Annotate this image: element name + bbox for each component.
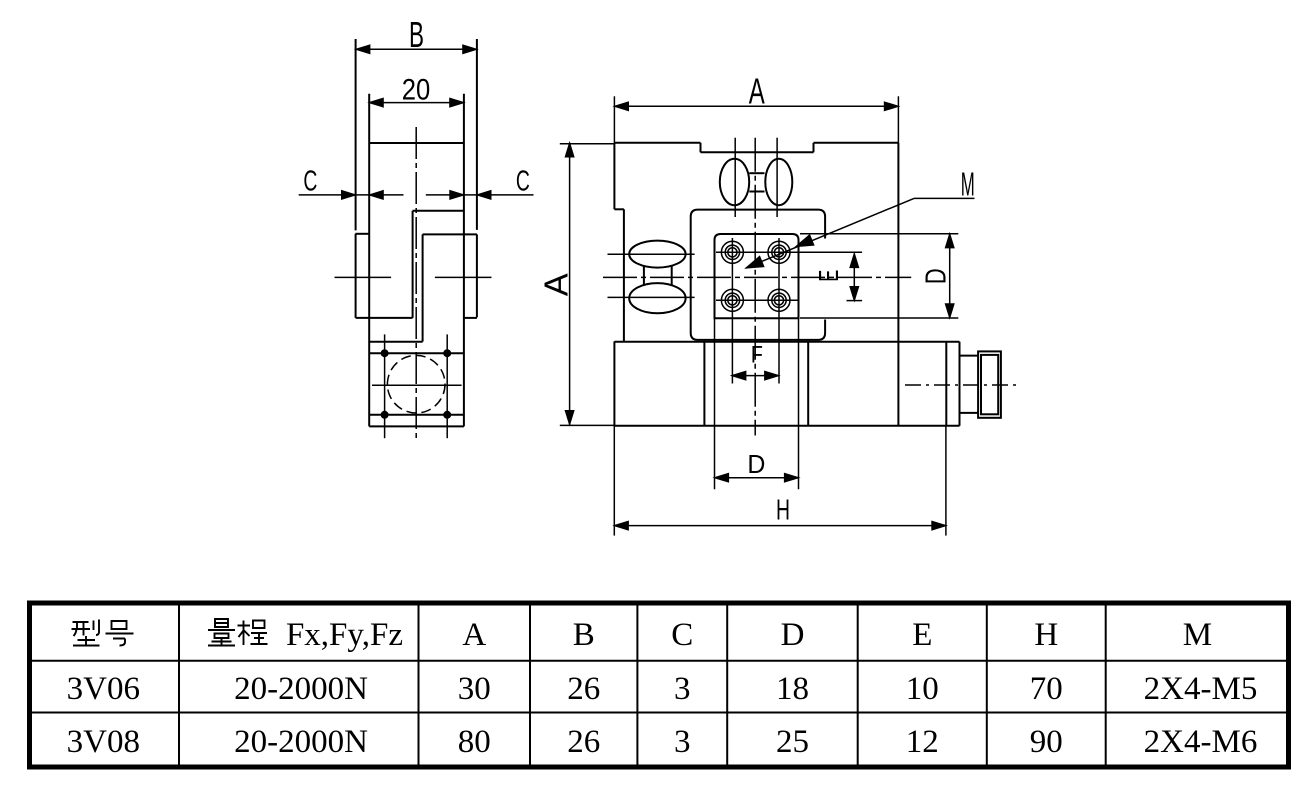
horizontal centerline right segment <box>435 276 492 278</box>
hole bottom-right outer circle <box>768 289 790 311</box>
top notch left wall <box>700 143 702 153</box>
dimension 20: dim line <box>369 102 464 104</box>
slot upper edge right part <box>413 210 464 212</box>
svg-text:20-2000N: 20-2000N <box>234 724 368 760</box>
central plate outline (C-shape open right) <box>691 210 825 340</box>
svg-text:25: 25 <box>776 724 809 760</box>
dimension H: dim line <box>614 525 946 527</box>
svg-text:B: B <box>573 617 595 653</box>
svg-text:90: 90 <box>1030 724 1063 760</box>
top bone right centerline <box>776 138 778 217</box>
section line C-C left segment <box>299 194 404 196</box>
svg-text:Fx,Fy,Fz: Fx,Fy,Fz <box>286 617 403 653</box>
slot right mouth lower edge <box>423 233 477 235</box>
top bone neck lower line <box>749 191 764 193</box>
hole top-left outer circle <box>721 241 743 263</box>
central vertical centerline (dash-dot) <box>754 138 756 436</box>
svg-text:3: 3 <box>674 671 691 707</box>
svg-text:18: 18 <box>776 671 809 707</box>
svg-text:3V08: 3V08 <box>67 724 140 760</box>
dimension E: top arrow <box>850 254 859 268</box>
top bone slot right lobe <box>765 159 792 205</box>
dimension A top: right arrow <box>884 102 898 111</box>
body left edge middle <box>623 209 625 341</box>
dimension F: dim line <box>732 375 779 377</box>
table column line 4 <box>636 603 638 767</box>
dimension A top: left extension line <box>613 96 615 143</box>
section line C-C right segment <box>426 194 534 196</box>
dimension D right: top arrow <box>945 234 954 248</box>
dimension H: left extension line <box>613 426 615 536</box>
outer left edge lower segment <box>355 234 357 318</box>
svg-text:D: D <box>781 617 805 653</box>
left bone slot bottom lobe <box>629 283 685 313</box>
middle slot right wall <box>422 234 424 341</box>
bolt circle (dashed) <box>387 355 445 413</box>
body left step upper <box>614 208 624 210</box>
hole top-right inner circle <box>774 248 783 257</box>
dimension D right: dim line <box>949 234 951 318</box>
section C arrow pointing left at outer right wall <box>477 191 491 200</box>
dimension H: right extension line <box>945 426 947 536</box>
svg-text:20-2000N: 20-2000N <box>234 671 368 707</box>
hole row bottom centerline <box>716 299 799 301</box>
inner left edge <box>368 94 370 427</box>
body right edge <box>897 143 899 426</box>
M leader arrow 1 <box>796 235 814 247</box>
svg-text:M: M <box>961 166 975 203</box>
table row line 1 <box>30 660 1290 662</box>
D extension line left <box>714 318 716 489</box>
hole column left centerline <box>731 238 733 384</box>
svg-text:D: D <box>921 268 953 284</box>
connector nut outer rect <box>978 351 1001 417</box>
header hanzi 量 <box>208 619 235 646</box>
svg-text:H: H <box>776 495 790 527</box>
body bottom edge <box>614 425 959 427</box>
dimension A left: top arrow <box>565 143 574 157</box>
inner mounting square <box>715 234 799 318</box>
svg-text:10: 10 <box>906 671 939 707</box>
table row line 2 <box>30 712 1290 714</box>
dimension B: right arrow <box>463 45 477 54</box>
main horizontal centerline (dash-dot) <box>603 276 911 278</box>
dimension D right: top extension line <box>800 233 958 235</box>
left bone slot top lobe <box>629 241 685 268</box>
connector block right face <box>959 342 961 426</box>
bolt dot top-right <box>444 350 451 357</box>
body top edge right part <box>814 142 899 144</box>
bolt centerline left column <box>384 334 386 438</box>
svg-text:C: C <box>671 617 693 653</box>
dimension B: left arrow <box>356 45 370 54</box>
left bone bottom centerline <box>608 296 695 298</box>
hole bottom-left inner circle <box>728 296 737 305</box>
header hanzi 型 <box>72 620 100 646</box>
vertical centerline (dash-dot) <box>415 127 417 438</box>
table column line 6 <box>857 603 859 767</box>
bolt dot top-left <box>381 350 388 357</box>
top bone slot left lobe <box>720 159 749 205</box>
dimension A top: dim line <box>614 105 898 107</box>
svg-text:20: 20 <box>402 74 431 107</box>
table column line 3 <box>529 603 531 767</box>
horizontal centerline left segment <box>335 276 392 278</box>
svg-text:30: 30 <box>458 671 491 707</box>
left bone neck left line <box>643 266 645 285</box>
M leader diagonal segment <box>746 198 914 268</box>
section C arrow pointing right at outer left wall <box>342 191 356 200</box>
svg-text:3: 3 <box>674 724 691 760</box>
bolt row top line <box>369 352 464 354</box>
dimension A top: right extension line <box>897 96 899 143</box>
connector nut inner rect <box>981 355 998 414</box>
middle slot left wall <box>412 211 414 318</box>
stem left edge <box>703 342 705 426</box>
top bone left centerline <box>734 138 736 217</box>
table column line 7 <box>986 603 988 767</box>
dimension F: right arrow <box>765 371 779 380</box>
dimension A left: bottom extension line <box>560 424 615 426</box>
inner right edge <box>463 94 465 427</box>
dimension F: left arrow <box>732 371 746 380</box>
table column line 1 <box>178 603 180 767</box>
top edge of inner tab <box>369 142 464 144</box>
hole row bottom centerline E extension <box>847 300 863 302</box>
bottom edge <box>369 425 464 427</box>
dimension D bottom: dim line <box>715 477 799 479</box>
M leader horizontal segment <box>914 197 975 199</box>
svg-text:H: H <box>1034 617 1058 653</box>
stem right edge <box>807 342 809 426</box>
top notch bottom edge <box>701 151 814 153</box>
dimension E: dim line <box>853 254 855 301</box>
M leader arrow 2 <box>746 256 764 268</box>
svg-text:3V06: 3V06 <box>67 671 140 707</box>
hole column right centerline <box>778 238 780 384</box>
svg-text:26: 26 <box>567 724 600 760</box>
dimension H: left arrow <box>614 521 628 530</box>
svg-text:A: A <box>462 617 486 653</box>
dimension D bottom: left arrow <box>715 473 729 482</box>
table outer border <box>30 603 1289 767</box>
dimension D right: bottom arrow <box>945 304 954 318</box>
connector stem bottom <box>960 412 979 414</box>
body left edge upper <box>613 143 615 210</box>
bolt dot bottom-left <box>381 411 388 418</box>
dimension B: dim line <box>356 48 477 50</box>
body top edge left part <box>614 142 700 144</box>
svg-text:2X4-M5: 2X4-M5 <box>1144 671 1258 707</box>
svg-text:E: E <box>813 270 844 282</box>
slot bottom edge <box>369 341 422 343</box>
svg-text:C: C <box>516 165 530 197</box>
outer right edge upper segment <box>476 39 478 230</box>
connector stem top <box>960 355 979 357</box>
slot left mouth lower edge <box>355 233 369 235</box>
dimension E: bottom arrow <box>850 287 859 301</box>
table column line 2 <box>418 603 420 767</box>
right shoulder line <box>464 317 477 319</box>
dimension A left: dim line <box>569 143 571 425</box>
svg-text:80: 80 <box>458 724 491 760</box>
svg-text:C: C <box>303 165 317 197</box>
svg-text:70: 70 <box>1030 671 1063 707</box>
dimension D right: bottom extension line <box>800 317 958 319</box>
left shoulder line <box>356 317 413 319</box>
svg-text:M: M <box>1183 617 1212 653</box>
D extension line right <box>798 318 800 489</box>
table column line 8 <box>1105 603 1107 767</box>
svg-text:12: 12 <box>906 724 939 760</box>
header hanzi 号 <box>106 621 134 646</box>
dimension A top: left arrow <box>614 102 628 111</box>
dimension H: right arrow <box>932 521 946 530</box>
section C arrow pointing left at inner left wall <box>369 191 383 200</box>
dimension D bottom: right arrow <box>785 473 799 482</box>
section C arrow pointing right at inner right wall <box>450 191 464 200</box>
body waist line <box>614 341 959 343</box>
connector centerline (dash-dot) <box>905 384 1021 386</box>
body left edge lower <box>613 341 615 425</box>
dimension A left: top extension line <box>560 143 615 145</box>
hole row top centerline <box>716 251 862 253</box>
svg-text:26: 26 <box>567 671 600 707</box>
svg-text:B: B <box>409 14 424 55</box>
outer left edge upper segment <box>355 39 357 230</box>
left bone neck right line <box>671 266 673 285</box>
top notch right wall <box>813 143 815 153</box>
dimension 20: left arrow <box>369 98 383 107</box>
hole top-right outer circle <box>768 241 790 263</box>
svg-text:E: E <box>912 617 932 653</box>
top bone neck upper line <box>749 172 764 174</box>
dimension A left: bottom arrow <box>565 411 574 425</box>
table column line 5 <box>726 603 728 767</box>
dimension 20: right arrow <box>450 98 464 107</box>
svg-text:A: A <box>537 273 574 296</box>
hole bottom-right inner circle <box>774 296 783 305</box>
bolt row bottom line <box>369 414 464 416</box>
outer right edge lower segment <box>476 234 478 317</box>
bolt centerline right column <box>446 334 448 438</box>
svg-text:D: D <box>747 449 765 479</box>
header hanzi 程 <box>238 621 268 646</box>
svg-text:F: F <box>751 342 763 369</box>
circle horizontal centerline <box>372 384 462 386</box>
svg-text:2X4-M6: 2X4-M6 <box>1144 724 1258 760</box>
left bone top centerline <box>608 253 695 255</box>
hole bottom-left outer circle <box>721 289 743 311</box>
bolt dot bottom-right <box>444 411 451 418</box>
hole top-left inner circle <box>728 248 737 257</box>
connector block inner face line <box>945 342 947 426</box>
svg-text:A: A <box>749 71 765 112</box>
